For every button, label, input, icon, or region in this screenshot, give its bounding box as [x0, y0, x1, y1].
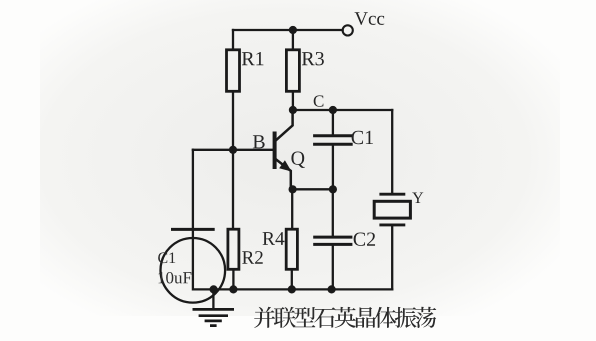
crystal Y body — [374, 201, 410, 218]
caption char 并 — [254, 307, 275, 328]
wire top rail to R3 — [292, 30, 294, 50]
wire R1 to R2 — [232, 91, 234, 229]
caption char 英 — [335, 307, 356, 328]
Vcc terminal circle — [343, 25, 353, 35]
label Q (transistor) — [291, 151, 304, 167]
label Y — [412, 193, 423, 203]
caption char 联 — [274, 307, 296, 328]
ground bars — [193, 309, 235, 325]
transistor Q base bar — [273, 132, 277, 170]
transistor Q emitter arrowhead — [279, 160, 291, 171]
transistor Q emitter lead — [276, 159, 291, 189]
resistor R1 — [227, 50, 240, 92]
label R3 — [302, 52, 324, 65]
caption char 荡 — [415, 307, 436, 328]
label node C — [314, 95, 324, 106]
label R1 — [242, 52, 264, 65]
wire emitter node to C2 — [332, 189, 334, 235]
junction node C / C1 branch — [329, 106, 337, 114]
junction top rail / R3 branch — [289, 26, 297, 34]
caption char 晶 — [356, 307, 376, 328]
junction bottom rail / ground — [210, 285, 218, 293]
caption char 振 — [395, 307, 417, 328]
junction emitter node left — [289, 185, 297, 193]
label B (base) — [253, 135, 265, 148]
wire R4 to bottom rail — [291, 269, 293, 289]
wire node C rail to crystal — [391, 110, 393, 193]
label R4 — [263, 232, 285, 245]
capacitor C1 — [313, 136, 353, 145]
transistor Q collector lead — [276, 110, 293, 140]
junction node C left — [289, 106, 297, 114]
capacitor C2 — [313, 237, 352, 244]
caption char 石 — [314, 307, 335, 327]
junction emitter node right — [329, 185, 337, 193]
wire base — [193, 149, 273, 151]
label R2 — [242, 251, 263, 264]
electrolytic capacitor C1 can circle — [161, 238, 226, 303]
junction bottom rail / R4 — [288, 285, 296, 293]
wire C2 to bottom rail — [332, 246, 334, 290]
wire emitter node rail — [293, 188, 333, 190]
wire C1 to emitter node — [332, 146, 334, 190]
junction bottom rail / C2 — [328, 285, 336, 293]
label C2 — [354, 232, 375, 245]
resistor R3 — [286, 50, 299, 92]
label C1 — [352, 131, 373, 144]
wire node C rail — [293, 109, 392, 111]
caption char 型 — [294, 307, 315, 327]
wire R2 to bottom rail — [232, 269, 234, 289]
electrolytic capacitor C1 top plate — [171, 228, 215, 231]
wire crystal to bottom rail — [391, 226, 393, 289]
wire node C to C1 — [332, 110, 334, 134]
crystal Y top plate — [379, 193, 405, 196]
crystal Y bottom plate — [379, 223, 405, 226]
wire top rail to R1 — [232, 30, 234, 50]
wire emitter node to R4 — [291, 189, 293, 229]
resistor R4 — [286, 229, 297, 269]
junction base node on R1-R2 branch — [229, 146, 237, 154]
value label 10uF — [158, 272, 191, 283]
wire bottom rail — [193, 288, 392, 290]
junction bottom rail / R2 — [229, 285, 237, 293]
caption char 体 — [375, 307, 397, 328]
ground stem — [212, 289, 214, 308]
resistor R2 — [228, 229, 239, 269]
label Vcc — [355, 12, 385, 25]
wire base node to electrolytic C1 — [192, 150, 194, 290]
label C1 (electrolytic) — [158, 252, 175, 263]
wire R3 to node C — [292, 91, 294, 110]
wire top rail to Vcc — [233, 29, 343, 31]
